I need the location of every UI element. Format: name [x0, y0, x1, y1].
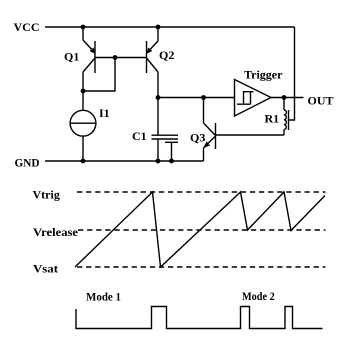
node dot GND-I1	[81, 159, 86, 164]
svg-text:R1: R1	[265, 111, 280, 125]
node dot GND-C1	[156, 159, 161, 164]
wire Q1 collector	[82, 72, 84, 91]
node dot VCC-Q1	[81, 25, 86, 30]
capacitor second plate	[165, 142, 178, 161]
wire Q3 base	[216, 134, 285, 136]
wire Q1 emitter	[82, 27, 84, 40]
svg-text:Trigger: Trigger	[244, 68, 283, 82]
wire C1 bottom	[157, 139, 159, 161]
wire Q2 emitter	[157, 27, 159, 41]
transistor Q1	[83, 40, 95, 73]
svg-text:Q2: Q2	[159, 48, 174, 62]
VCC rail	[45, 26, 295, 28]
wire VCC right drop	[289, 27, 295, 120]
wire sawtooth waveform	[75, 192, 325, 267]
node Vsat dashed level	[77, 266, 326, 268]
hysteresis glyph	[237, 92, 254, 105]
node dot Q3 collector	[201, 95, 206, 100]
wire Q3 collector	[203, 98, 205, 124]
svg-text:Mode 1: Mode 1	[86, 290, 121, 304]
svg-text:Vtrig: Vtrig	[33, 187, 60, 201]
wire base Q1-Q2	[95, 57, 147, 59]
wire pulse waveform	[76, 307, 323, 329]
svg-text:Vrelease: Vrelease	[33, 225, 79, 239]
svg-text:Mode 2: Mode 2	[242, 289, 275, 303]
svg-text:I1: I1	[99, 106, 110, 120]
svg-text:GND: GND	[15, 155, 40, 169]
svg-text:Q1: Q1	[64, 49, 79, 63]
resistor R1	[284, 98, 286, 136]
wire trigger output	[271, 97, 304, 99]
svg-text:VCC: VCC	[14, 20, 40, 34]
wire base tie down	[83, 58, 115, 92]
svg-text:C1: C1	[132, 129, 147, 143]
node dot Q1 collector tie	[81, 89, 86, 94]
svg-text:Q3: Q3	[190, 131, 205, 145]
node Vtrig dashed level	[77, 191, 326, 193]
node dot VCC-Q2	[156, 25, 161, 30]
op-amp U1 trigger triangle	[235, 80, 272, 117]
wire I1 to GND	[82, 136, 84, 161]
transistor Q2	[147, 41, 159, 73]
wiper bar	[288, 110, 290, 130]
GND rail	[45, 160, 204, 162]
node Vrelease dashed level	[78, 229, 326, 231]
node dot C1 node	[156, 95, 161, 100]
node dot GND-plate	[169, 159, 174, 164]
wire I1 top	[82, 91, 84, 110]
wire Q2 collector	[157, 72, 159, 98]
node wire to trigger	[158, 97, 235, 99]
current source I1	[70, 110, 96, 136]
node dot bases	[113, 55, 118, 60]
transistor Q3	[204, 123, 216, 149]
wire Q3 emitter to GND	[203, 148, 205, 161]
wire C1 top	[157, 98, 159, 136]
svg-text:OUT: OUT	[308, 93, 334, 107]
node dot output	[282, 95, 287, 100]
capacitor C1	[152, 135, 179, 139]
svg-text:Vsat: Vsat	[33, 261, 58, 275]
